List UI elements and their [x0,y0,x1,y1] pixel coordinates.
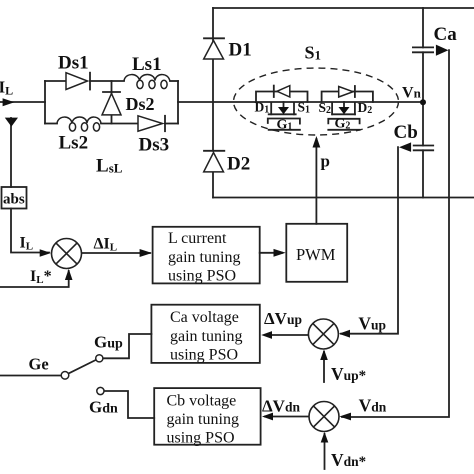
svg-text:using PSO: using PSO [170,347,238,364]
svg-text:G1: G1 [277,118,293,133]
svg-text:ΔIL: ΔIL [94,236,118,254]
svg-text:Ca: Ca [434,24,458,45]
svg-text:Cb voltage: Cb voltage [167,393,237,410]
svg-text:IL*: IL* [30,268,52,286]
svg-text:IL: IL [0,78,13,98]
svg-text:p: p [321,152,330,171]
svg-text:Vdn: Vdn [359,396,387,416]
svg-text:Ds3: Ds3 [139,135,170,156]
svg-text:gain tuning: gain tuning [167,411,239,428]
svg-text:Gdn: Gdn [89,398,118,417]
svg-text:Vup: Vup [358,313,386,333]
svg-text:LsL: LsL [96,156,123,177]
svg-text:Ls2: Ls2 [59,133,89,154]
svg-text:L current: L current [168,230,227,247]
svg-text:using PSO: using PSO [167,430,235,447]
svg-text:Ds2: Ds2 [126,94,155,114]
svg-text:using PSO: using PSO [168,268,236,285]
svg-text:Gup: Gup [94,333,123,352]
svg-text:IL: IL [20,235,34,253]
svg-text:Ca voltage: Ca voltage [170,309,239,326]
svg-text:abs: abs [3,192,25,208]
svg-text:D2: D2 [227,154,250,175]
svg-text:Vn: Vn [402,85,422,102]
svg-text:gain tuning: gain tuning [170,328,242,345]
svg-text:PWM: PWM [296,245,336,264]
svg-text:gain tuning: gain tuning [168,249,240,266]
svg-text:Cb: Cb [394,122,418,143]
svg-text:Ge: Ge [29,355,49,374]
svg-text:ΔVdn: ΔVdn [262,397,300,416]
svg-text:Vdn*: Vdn* [331,450,366,470]
svg-text:Ds1: Ds1 [58,53,89,74]
svg-text:Vup*: Vup* [331,364,366,384]
svg-text:D1: D1 [229,40,252,61]
svg-text:S1: S1 [305,43,322,63]
svg-text:Ls1: Ls1 [132,54,162,75]
svg-text:ΔVup: ΔVup [264,309,302,328]
